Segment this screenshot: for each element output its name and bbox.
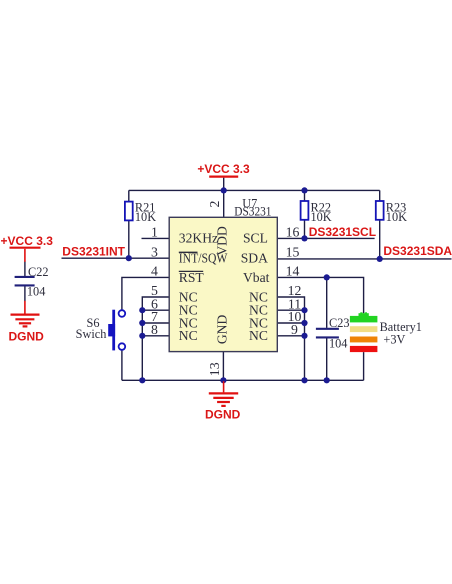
svg-text:3: 3	[151, 244, 158, 259]
svg-text:DS3231SCL: DS3231SCL	[309, 225, 376, 239]
svg-text:SCL: SCL	[243, 231, 268, 246]
svg-text:GND: GND	[215, 314, 230, 344]
svg-text:Swich: Swich	[76, 327, 107, 341]
svg-text:+VCC 3.3: +VCC 3.3	[1, 234, 54, 248]
svg-text:C23: C23	[329, 316, 350, 330]
svg-text:SDA: SDA	[241, 251, 268, 266]
svg-text:14: 14	[286, 264, 300, 279]
svg-text:DGND: DGND	[205, 408, 241, 422]
svg-text:DS3231INT: DS3231INT	[62, 245, 125, 259]
svg-text:NC: NC	[249, 328, 268, 343]
svg-text:13: 13	[207, 362, 222, 376]
svg-text:9: 9	[291, 322, 298, 337]
svg-text:NC: NC	[179, 328, 198, 343]
svg-text:DGND: DGND	[9, 329, 45, 343]
svg-text:10K: 10K	[386, 210, 407, 224]
svg-text:32KHz: 32KHz	[179, 231, 218, 246]
svg-text:16: 16	[286, 225, 300, 240]
svg-text:Vbat: Vbat	[243, 270, 270, 285]
svg-text:DS3231: DS3231	[234, 204, 271, 218]
svg-text:10K: 10K	[311, 210, 332, 224]
svg-text:2: 2	[207, 200, 222, 207]
svg-text:104: 104	[329, 336, 347, 350]
svg-text:C22: C22	[28, 265, 49, 279]
svg-text:15: 15	[286, 244, 300, 259]
svg-text:1: 1	[151, 225, 158, 240]
svg-text:DS3231SDA: DS3231SDA	[383, 244, 452, 258]
svg-text:+3V: +3V	[383, 332, 405, 346]
svg-text:4: 4	[151, 264, 158, 279]
svg-text:8: 8	[151, 322, 158, 337]
svg-text:VDD: VDD	[215, 226, 230, 256]
svg-text:104: 104	[27, 284, 45, 298]
svg-text:10K: 10K	[135, 210, 156, 224]
svg-text:+VCC 3.3: +VCC 3.3	[197, 162, 250, 176]
